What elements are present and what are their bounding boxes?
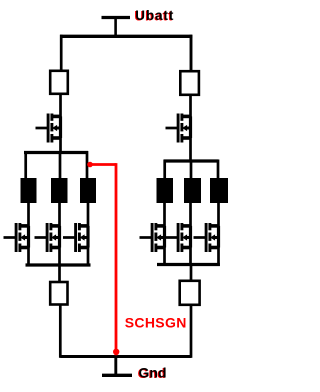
wire left bottom drop: [59, 305, 62, 358]
node red junction bottom: [113, 349, 119, 355]
ground symbol: [102, 357, 132, 376]
wire boxr2 to fet: [189, 202, 192, 227]
wire drop to black box r1: [163, 160, 166, 180]
wire bus to left bottom resistor: [58, 264, 61, 282]
svg-text:Gnd: Gnd: [139, 365, 167, 381]
transistor lower left 2: [35, 223, 60, 252]
wire red horizontal SCHSGN: [89, 163, 117, 166]
wire fet3 source down: [87, 247, 90, 267]
resistor right top: [180, 71, 199, 95]
wire drop to black box r2: [190, 160, 193, 180]
wire fet source to bus: [59, 138, 62, 154]
transistor lower right 3: [194, 223, 219, 252]
wire fetr2 source down: [189, 247, 192, 266]
resistor left bottom: [50, 282, 67, 305]
resistor right bottom: [180, 281, 200, 305]
wire left upper bus: [24, 151, 88, 154]
black box left 3: [80, 178, 96, 203]
black box right 2: [184, 178, 201, 203]
wire fet source to right bus: [189, 138, 192, 163]
transistor lower right 1: [140, 223, 165, 252]
transistor upper right: [166, 114, 191, 143]
black box right 3: [210, 178, 228, 203]
black box right 1: [157, 178, 174, 203]
resistor left top: [50, 71, 68, 94]
wire resistor to fet: [59, 94, 62, 117]
wire drop to black box 2: [59, 151, 62, 179]
wire resistor to fet right: [189, 95, 192, 118]
wire box2 to fet2: [58, 202, 61, 227]
wire bottom rail: [60, 355, 191, 358]
wire left branch drop: [60, 35, 63, 71]
wire drop to black box 1: [24, 151, 27, 179]
transistor lower left 1: [4, 223, 29, 252]
wire box3 to fet3: [87, 202, 90, 227]
svg-text:Ubatt: Ubatt: [135, 8, 174, 23]
wire red vertical SCHSGN: [115, 163, 118, 355]
wire bus to right bottom resistor: [190, 264, 193, 281]
wire boxr3 to fet: [217, 202, 220, 227]
wire fetr3 source down: [217, 247, 220, 266]
wire right bottom drop: [190, 305, 193, 358]
wire left lower bus: [26, 263, 91, 266]
wire top rail: [60, 35, 192, 38]
wire right upper bus: [164, 159, 218, 162]
svg-text:SCHSGN: SCHSGN: [125, 315, 187, 331]
wire drop to black box 3: [86, 151, 89, 179]
wire boxr1 to fet: [163, 202, 166, 227]
transistor lower right 2: [166, 223, 191, 252]
wire fetr1 source down: [163, 247, 166, 266]
black box left 2: [51, 178, 68, 203]
transistor upper left: [36, 114, 61, 143]
wire right branch drop: [190, 35, 193, 71]
wire right lower bus: [157, 263, 220, 266]
wire drop to black box r3: [217, 160, 220, 180]
power symbol Ubatt: [102, 18, 131, 37]
node red junction top: [87, 162, 93, 168]
wire fet1 source down: [27, 247, 30, 267]
black box left 1: [21, 178, 37, 203]
wire box1 to fet1: [27, 202, 30, 227]
wire fet2 source down: [58, 247, 61, 267]
transistor lower left 3: [63, 223, 88, 252]
